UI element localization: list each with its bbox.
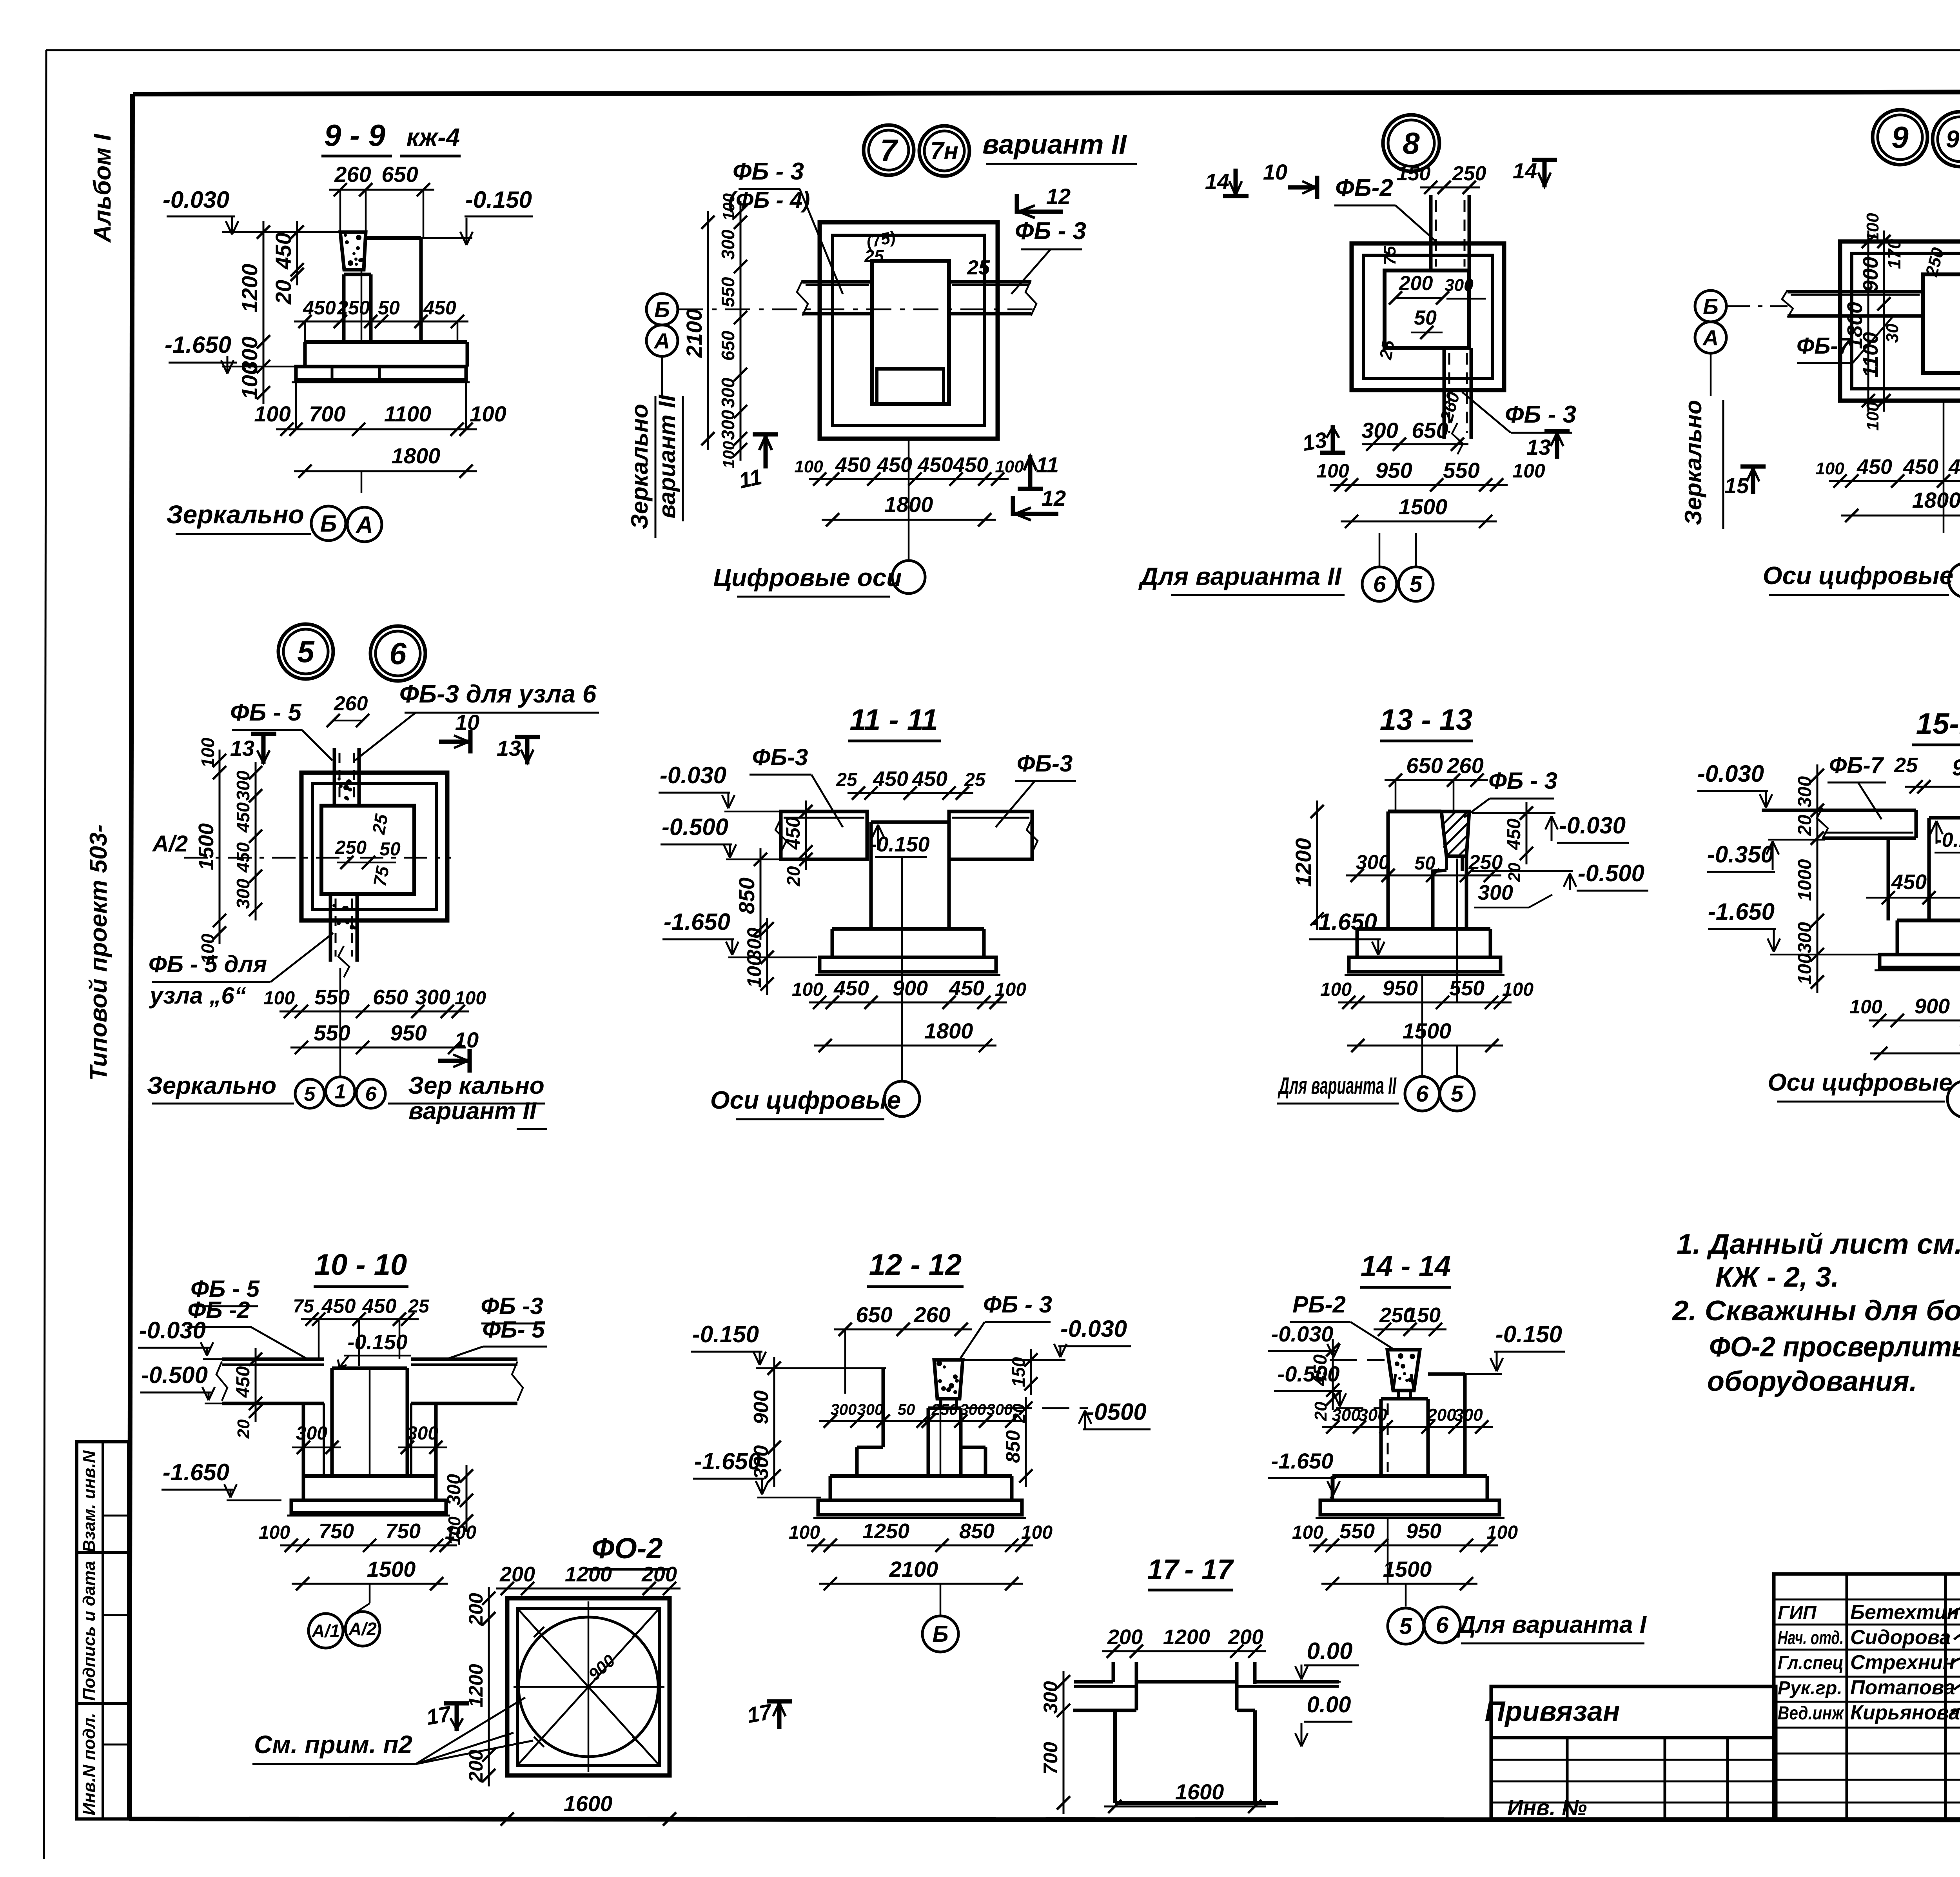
plan 8 bottom slot (ФБ-3): [1443, 348, 1446, 439]
svg-text:25: 25: [1894, 753, 1918, 777]
section 10-10 right slab: [411, 1358, 517, 1361]
section 10-10 axis circles: [369, 1368, 371, 1476]
svg-text:75: 75: [293, 1296, 314, 1317]
plan 9 bottom dims: [1829, 480, 1960, 482]
node circles 9 and 9н: [1873, 110, 1927, 165]
section 14-14 right wall: [1463, 1374, 1467, 1476]
svg-text:100: 100: [1863, 402, 1882, 431]
plan ФО-2 bottom dim 1600: [496, 1818, 681, 1820]
section 14-14 circles 5 6 caption: [1388, 1608, 1424, 1644]
svg-text:0.00: 0.00: [1307, 1638, 1353, 1664]
svg-text:50: 50: [379, 839, 401, 860]
svg-text:5: 5: [297, 634, 315, 669]
svg-text:Гл.спец: Гл.спец: [1778, 1653, 1844, 1674]
svg-text:300: 300: [1445, 276, 1474, 295]
svg-text:0.00: 0.00: [1307, 1692, 1351, 1717]
svg-text:Зеркально: Зеркально: [1680, 400, 1706, 525]
svg-text:200: 200: [499, 1563, 535, 1586]
svg-text:Инв.N подл.: Инв.N подл.: [80, 1713, 99, 1815]
svg-text:950: 950: [1383, 977, 1418, 1000]
plan 8 top slot (ФБ-2 beam): [1429, 195, 1433, 270]
svg-text:200: 200: [465, 1593, 487, 1626]
svg-text:ФБ - 3: ФБ - 3: [1015, 218, 1086, 245]
plan 7 axis dashed: [678, 309, 1039, 310]
svg-text:900: 900: [1952, 755, 1960, 781]
svg-text:А/2: А/2: [348, 1619, 377, 1639]
svg-text:ФБ - 3: ФБ - 3: [1505, 401, 1576, 428]
svg-text:75: 75: [369, 864, 393, 888]
svg-text:200: 200: [1399, 272, 1433, 295]
svg-text:9: 9: [1891, 120, 1909, 154]
svg-text:300: 300: [1795, 922, 1815, 953]
svg-text:ФБ - 3: ФБ - 3: [733, 158, 804, 185]
svg-text:5: 5: [1399, 1614, 1412, 1639]
svg-text:17 - 17: 17 - 17: [1147, 1554, 1234, 1585]
svg-text:1. Данный лист см. с лист: 1. Данный лист см. с листами: [1677, 1229, 1960, 1260]
section 13-13 right chains: [1526, 802, 1528, 864]
svg-text:260: 260: [913, 1302, 950, 1327]
svg-text:12: 12: [1042, 486, 1066, 510]
svg-text:Привязан: Привязан: [1485, 1696, 1620, 1727]
plan 7 right beam ФБ: [949, 280, 1031, 284]
svg-text:Кирьянова: Кирьянова: [1850, 1701, 1960, 1724]
svg-text:-1.650: -1.650: [165, 332, 231, 358]
svg-text:75: 75: [1380, 246, 1399, 265]
svg-text:1200: 1200: [565, 1563, 612, 1586]
svg-text:260: 260: [334, 162, 371, 187]
svg-text:300: 300: [750, 1445, 773, 1479]
svg-text:200: 200: [1228, 1625, 1263, 1649]
svg-text:9 - 9: 9 - 9: [324, 118, 386, 152]
svg-text:Вед.инж: Вед.инж: [1778, 1703, 1844, 1724]
svg-text:РБ-2: РБ-2: [1292, 1291, 1346, 1318]
svg-text:100: 100: [719, 441, 738, 468]
section 10-10 footing slab: [303, 1474, 436, 1478]
section 9-9 pier (concrete): [340, 232, 366, 270]
section 11-11 left chains: [760, 848, 762, 940]
svg-text:450: 450: [835, 453, 871, 477]
svg-text:Б: Б: [320, 510, 337, 537]
signature table: [1774, 1574, 1960, 1819]
svg-text:5: 5: [1410, 572, 1423, 597]
svg-text:Для варианта II: Для варианта II: [1138, 562, 1341, 590]
svg-text:250: 250: [337, 297, 370, 319]
svg-text:450: 450: [1504, 819, 1524, 850]
svg-text:-0.500: -0.500: [141, 1362, 208, 1388]
svg-text:300: 300: [296, 1423, 327, 1444]
plan 7 outer walls: [820, 222, 998, 439]
section 11-11 column: [869, 822, 873, 929]
svg-text:-0.150: -0.150: [347, 1331, 407, 1354]
svg-text:700: 700: [1040, 1742, 1062, 1775]
svg-text:300: 300: [857, 1401, 884, 1418]
section 12-12 top dims 650 260: [834, 1329, 972, 1331]
svg-text:100: 100: [455, 988, 486, 1009]
svg-text:250: 250: [1452, 162, 1486, 185]
svg-text:300: 300: [1040, 1681, 1062, 1714]
svg-text:8: 8: [1403, 126, 1420, 160]
svg-text:150: 150: [1405, 1303, 1441, 1327]
svg-text:Б: Б: [932, 1621, 948, 1647]
svg-text:100: 100: [719, 193, 738, 221]
svg-text:6: 6: [365, 1083, 377, 1106]
section 12-12 axis: [940, 1408, 942, 1476]
svg-text:450: 450: [953, 453, 988, 477]
svg-text:25: 25: [836, 770, 858, 790]
svg-text:300: 300: [987, 1401, 1013, 1418]
svg-text:-0.030: -0.030: [1559, 812, 1626, 839]
section 15-15 bottom dims: [1869, 1020, 1960, 1022]
svg-text:450: 450: [1948, 455, 1960, 479]
svg-text:ФБ - 5: ФБ - 5: [230, 699, 302, 726]
svg-text:100: 100: [1512, 460, 1545, 482]
section 17-17 structure: [1112, 1662, 1115, 1682]
plan 7 left dim chains: [707, 211, 709, 450]
svg-text:-0.030: -0.030: [139, 1317, 206, 1343]
svg-text:Подпись и дата: Подпись и дата: [80, 1561, 99, 1701]
svg-text:200: 200: [641, 1563, 677, 1586]
svg-text:6: 6: [1436, 1612, 1449, 1638]
plan 8 outer walls: [1352, 243, 1504, 390]
svg-text:-0.150: -0.150: [1495, 1321, 1562, 1347]
section 11-11 axis + caption: [901, 857, 903, 1081]
svg-text:200: 200: [1107, 1625, 1143, 1649]
plan 7 central pit: [872, 261, 949, 404]
svg-text:ФБ-3: ФБ-3: [1017, 750, 1073, 777]
section 13-13 bottom dims: [1338, 1002, 1512, 1004]
svg-text:10: 10: [1263, 160, 1287, 184]
svg-text:950: 950: [390, 1020, 426, 1045]
section 10-10 right chain 300: [466, 1465, 468, 1532]
svg-text:300: 300: [233, 879, 253, 909]
svg-text:300: 300: [415, 986, 450, 1009]
section 13-13 footing: [1357, 927, 1490, 931]
svg-text:900: 900: [1859, 257, 1882, 292]
plan ФО-2 left dims: [488, 1587, 490, 1786]
svg-text:300: 300: [407, 1423, 438, 1444]
svg-text:5: 5: [1451, 1081, 1464, 1107]
svg-text:1100: 1100: [384, 401, 431, 426]
svg-text:450: 450: [1310, 1354, 1331, 1386]
svg-text:-0.150: -0.150: [692, 1321, 759, 1347]
node circles 7 and 7н: [864, 125, 914, 175]
svg-text:14: 14: [1205, 169, 1229, 194]
svg-text:13: 13: [1526, 435, 1551, 459]
svg-text:1800: 1800: [924, 1018, 973, 1043]
svg-text:ФБ- 5: ФБ- 5: [482, 1316, 545, 1343]
svg-text:узла „6“: узла „6“: [149, 982, 246, 1009]
svg-text:Рук.гр.: Рук.гр.: [1778, 1678, 1842, 1699]
svg-text:А: А: [1702, 325, 1719, 350]
svg-text:ФБ-2: ФБ-2: [1335, 174, 1393, 201]
svg-text:650: 650: [1406, 753, 1443, 778]
svg-text:13 - 13: 13 - 13: [1380, 703, 1473, 737]
svg-text:20: 20: [1505, 862, 1524, 882]
svg-text:900: 900: [893, 977, 928, 1000]
svg-text:7н: 7н: [930, 138, 958, 165]
plan ФО-2 top dims 200 1200 200: [496, 1588, 681, 1590]
svg-text:100: 100: [254, 401, 290, 426]
svg-text:150: 150: [1397, 162, 1431, 185]
svg-text:100: 100: [445, 1522, 476, 1543]
svg-text:20: 20: [271, 280, 296, 305]
svg-text:450: 450: [1857, 455, 1892, 479]
svg-text:Нач. отд.: Нач. отд.: [1778, 1628, 1844, 1648]
svg-text:2. Скважины для болтов в ф: 2. Скважины для болтов в фун-те: [1671, 1295, 1960, 1327]
section 12-12 bottom dims: [807, 1545, 1033, 1547]
svg-text:450: 450: [1891, 870, 1927, 894]
plan 7 axis circles Б А: [646, 294, 678, 325]
section 9-9 right wall: [367, 236, 421, 240]
svg-text:КЖ - 2, 3.: КЖ - 2, 3.: [1715, 1262, 1839, 1293]
svg-text:450: 450: [233, 802, 253, 833]
svg-text:15-15: 15-15: [1916, 707, 1960, 741]
svg-text:оборудования.: оборудования.: [1707, 1366, 1917, 1397]
svg-text:100: 100: [1815, 459, 1844, 478]
svg-text:50: 50: [898, 1401, 915, 1418]
plan 9 central pit: [1923, 274, 1960, 373]
section 11-11 right slab: [949, 811, 1032, 859]
svg-text:-0.030: -0.030: [660, 762, 726, 788]
plan 9 outer walls: [1840, 241, 1960, 401]
svg-text:А: А: [355, 512, 373, 538]
section 14-14 column: [1379, 1399, 1383, 1476]
svg-text:450: 450: [233, 1366, 254, 1398]
svg-text:650: 650: [373, 986, 408, 1009]
svg-text:850: 850: [959, 1519, 995, 1543]
plan 5/6 left dim chains: [219, 750, 221, 944]
svg-text:250: 250: [1468, 851, 1503, 874]
plan 9 axis line down: [1943, 401, 1945, 533]
svg-text:150: 150: [1008, 1357, 1029, 1387]
svg-text:450: 450: [949, 977, 984, 1000]
svg-text:650: 650: [856, 1302, 892, 1327]
svg-text:6: 6: [1416, 1081, 1429, 1107]
svg-text:450: 450: [362, 1295, 397, 1318]
svg-text:-1.650: -1.650: [1708, 899, 1775, 925]
svg-text:450: 450: [877, 453, 912, 477]
svg-text:ФБ - 3: ФБ - 3: [1488, 768, 1557, 794]
section 10-10 bottom dims: [280, 1545, 457, 1547]
plan 8 bottom dims: [1362, 443, 1468, 445]
svg-text:25: 25: [964, 770, 986, 790]
svg-text:100: 100: [259, 1522, 290, 1543]
section 13-13 structure: [1387, 811, 1390, 929]
svg-text:450: 450: [303, 297, 336, 319]
svg-text:300: 300: [718, 410, 738, 440]
svg-text:-0.350: -0.350: [1707, 841, 1774, 868]
svg-text:вариант II: вариант II: [408, 1098, 537, 1125]
svg-text:1200: 1200: [1163, 1625, 1210, 1649]
svg-text:450: 450: [782, 817, 804, 850]
svg-text:260: 260: [1446, 753, 1483, 778]
svg-text:Типовой проект 503-: Типовой проект 503-: [85, 824, 112, 1081]
svg-text:ГИП: ГИП: [1778, 1603, 1817, 1623]
svg-text:-0.030: -0.030: [1697, 761, 1764, 787]
svg-text:850: 850: [734, 877, 759, 914]
svg-text:1800: 1800: [1912, 488, 1960, 512]
section 9-9 base slab: [296, 367, 466, 380]
pривязан box: [1491, 1686, 1776, 1819]
section 14-14 mid dims: [1322, 1426, 1493, 1428]
svg-text:25: 25: [864, 247, 884, 266]
svg-text:1250: 1250: [862, 1519, 909, 1543]
svg-text:1800: 1800: [392, 443, 441, 468]
svg-text:Альбом I: Альбом I: [89, 133, 116, 243]
section 10-10 column: [330, 1368, 334, 1476]
svg-text:вариант II: вариант II: [982, 129, 1127, 160]
svg-text:850: 850: [1002, 1430, 1024, 1463]
svg-text:ФБ - 3: ФБ - 3: [983, 1291, 1052, 1318]
svg-text:100: 100: [794, 457, 823, 476]
svg-text:Инв. №: Инв. №: [1507, 1795, 1587, 1820]
section 13-13 top dims 650 260: [1385, 779, 1488, 781]
svg-text:Бетехтин: Бетехтин: [1850, 1601, 1959, 1624]
section 10-10 top dims 75 450 450 25: [301, 1318, 419, 1320]
svg-text:550: 550: [1443, 458, 1479, 483]
svg-text:13: 13: [230, 736, 254, 761]
svg-text:ФО-2 просверлить при устано: ФО-2 просверлить при установке: [1709, 1331, 1960, 1363]
svg-text:950: 950: [1406, 1519, 1441, 1543]
svg-text:1000: 1000: [1795, 859, 1815, 901]
svg-text:А/2: А/2: [152, 831, 188, 857]
plan 5/6 top slot ФБ-5: [333, 748, 336, 806]
plan ФО-2 squares: [507, 1598, 670, 1775]
svg-text:-0.150: -0.150: [1935, 829, 1960, 851]
section 17-17 left chain 300 700: [1063, 1671, 1065, 1814]
plan 8 central pit: [1385, 270, 1469, 348]
section 9-9 bottom dims: [276, 428, 477, 430]
svg-text:300: 300: [1478, 881, 1513, 904]
svg-text:100: 100: [1849, 996, 1882, 1018]
svg-text:450: 450: [321, 1295, 356, 1318]
section 14-14 left chain 450 20: [1332, 1339, 1334, 1410]
svg-text:550: 550: [314, 1020, 350, 1045]
section 13-13 left chain 1200: [1316, 801, 1318, 930]
svg-text:100: 100: [789, 1522, 820, 1543]
svg-text:1500: 1500: [1399, 494, 1448, 519]
svg-text:950: 950: [1376, 458, 1412, 483]
svg-text:См. прим. п2: См. прим. п2: [254, 1730, 412, 1759]
svg-text:50: 50: [1414, 853, 1436, 874]
section marks 12 (top and bottom): [1015, 194, 1019, 214]
svg-text:Оси цифровые: Оси цифровые: [710, 1086, 901, 1114]
svg-text:Зеркально: Зеркально: [626, 404, 653, 529]
section 14-14 top dims 250 150: [1374, 1329, 1446, 1331]
svg-text:11 - 11: 11 - 11: [849, 703, 938, 737]
svg-text:20: 20: [234, 1419, 253, 1439]
svg-text:300: 300: [831, 1401, 857, 1418]
svg-text:Зер кально: Зер кально: [408, 1072, 544, 1099]
svg-text:450: 450: [873, 767, 908, 791]
section 15-15 footing: [1897, 919, 1960, 922]
svg-text:ФБ - 5 для: ФБ - 5 для: [149, 951, 267, 977]
svg-text:1500: 1500: [194, 823, 218, 870]
section 9-9 column: [342, 274, 346, 343]
svg-text:750: 750: [385, 1519, 421, 1543]
svg-text:550: 550: [314, 986, 350, 1009]
svg-text:300: 300: [1454, 1405, 1483, 1425]
svg-text:450: 450: [912, 767, 947, 791]
svg-text:100: 100: [792, 979, 823, 1000]
plan 7 axis to circle: [908, 439, 910, 561]
svg-text:-0500: -0500: [1086, 1399, 1146, 1425]
section 15-15 central box: [1929, 816, 1960, 820]
svg-text:1500: 1500: [1383, 1557, 1432, 1581]
svg-text:6: 6: [1373, 572, 1386, 597]
svg-text:15: 15: [1724, 473, 1749, 498]
svg-text:100: 100: [263, 988, 295, 1009]
svg-text:1200: 1200: [1291, 838, 1316, 887]
section 14-14 footing: [1332, 1474, 1487, 1478]
svg-text:Оси цифровые: Оси цифровые: [1763, 561, 1953, 590]
section 14-14 pier: [1387, 1350, 1420, 1391]
svg-text:Б: Б: [1703, 294, 1719, 319]
plan 7 left beam ФБ: [802, 280, 872, 284]
svg-text:250: 250: [335, 837, 367, 858]
svg-text:5: 5: [304, 1083, 316, 1106]
svg-text:1500: 1500: [1403, 1018, 1452, 1043]
svg-text:700: 700: [309, 401, 345, 426]
svg-text:650: 650: [718, 330, 738, 361]
svg-text:Цифровые оси: Цифровые оси: [713, 563, 902, 592]
svg-text:1600: 1600: [1175, 1779, 1224, 1804]
plan 5/6 bottom slot ФБ-5: [329, 894, 332, 962]
section 12-12 right wing: [984, 1447, 987, 1476]
section 9-9 axis: [361, 471, 363, 493]
svg-text:1500: 1500: [367, 1557, 416, 1581]
plan 9 left beam ФБ-7: [1788, 290, 1923, 294]
section 12-12 column: [927, 1408, 930, 1476]
plan 7 bottom dims: [809, 478, 1009, 480]
svg-text:10: 10: [454, 1027, 479, 1052]
section 13-13 mid dims 300 50 250: [1346, 875, 1501, 877]
svg-text:300: 300: [960, 1401, 986, 1418]
svg-text:ФО-2: ФО-2: [592, 1532, 662, 1565]
svg-text:1: 1: [335, 1080, 346, 1103]
svg-text:170: 170: [1884, 239, 1904, 269]
svg-text:ФБ -3: ФБ -3: [481, 1293, 543, 1319]
svg-text:7: 7: [880, 133, 898, 167]
section 12-12 left chain 900 300: [773, 1357, 775, 1487]
section 12-12 pier: [934, 1360, 963, 1399]
svg-text:300: 300: [1795, 776, 1815, 808]
section 9-9 top dim 260 650: [329, 189, 434, 191]
svg-text:9н: 9н: [1946, 126, 1960, 153]
svg-text:300: 300: [1361, 418, 1398, 443]
svg-text:-0.500: -0.500: [662, 814, 728, 840]
svg-text:100: 100: [1316, 460, 1349, 482]
plan 5/6 central pit: [321, 806, 414, 894]
svg-text:30: 30: [1883, 323, 1902, 343]
svg-text:-0.030: -0.030: [1060, 1316, 1127, 1342]
svg-text:ФБ-7: ФБ-7: [1829, 753, 1884, 778]
svg-text:-1.650: -1.650: [664, 909, 730, 935]
svg-text:вариант II: вариант II: [654, 394, 680, 518]
section 9-9 mid dims 450 250 50 450: [294, 321, 468, 323]
svg-text:-1.650: -1.650: [1271, 1449, 1334, 1473]
svg-text:Сидорова: Сидорова: [1850, 1626, 1951, 1649]
svg-text:100: 100: [995, 457, 1024, 476]
svg-text:Б: Б: [654, 297, 670, 322]
section 11-11 left slab: [781, 811, 867, 859]
svg-text:100: 100: [995, 979, 1026, 1000]
left margin table: [77, 1442, 129, 1819]
svg-text:2100: 2100: [682, 309, 706, 358]
plan 5/6 outer walls: [301, 773, 447, 920]
svg-text:-1.650: -1.650: [163, 1459, 229, 1485]
section 15-15 left chain: [1817, 764, 1818, 993]
